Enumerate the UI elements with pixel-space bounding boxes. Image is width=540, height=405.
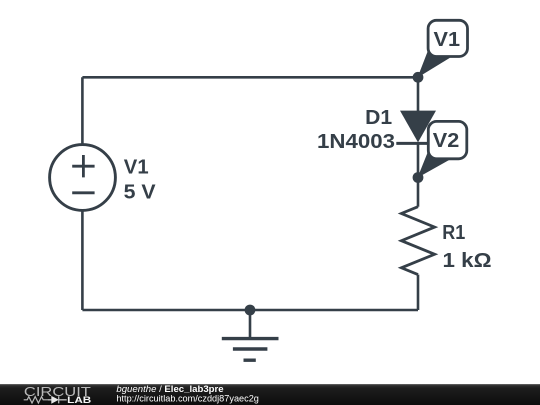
wire bottom horizontal rail bbox=[82, 309, 418, 312]
svg-text:V1: V1 bbox=[434, 28, 461, 51]
flag V2 rounded box bbox=[428, 121, 467, 158]
wire top horizontal from source to node V1 bbox=[82, 76, 418, 79]
svg-text:1N4003: 1N4003 bbox=[317, 130, 395, 153]
svg-text:R1: R1 bbox=[442, 221, 465, 244]
wire diode to resistor with node V2 bbox=[417, 143, 420, 207]
wire left vertical upper (source top to corner) bbox=[81, 77, 84, 144]
voltage source V1 circle bbox=[50, 145, 116, 211]
wire node V1 down to diode bbox=[417, 77, 420, 111]
diode D1 triangle bbox=[400, 111, 436, 143]
svg-text:1 kΩ: 1 kΩ bbox=[443, 249, 492, 272]
diode D1 cathode bar bbox=[396, 142, 438, 145]
svg-text:V2: V2 bbox=[433, 129, 460, 152]
footer logo resistor zigzag bbox=[24, 397, 48, 403]
flag V2 tail wedge bbox=[418, 152, 451, 178]
svg-text:http://circuitlab.com/czddj87y: http://circuitlab.com/czddj87yaec2g bbox=[116, 394, 259, 405]
ground node dot bbox=[245, 305, 256, 316]
resistor R1 zigzag bbox=[401, 207, 434, 275]
node junction dot mid (net V2) bbox=[413, 172, 424, 183]
ground bar 3 bbox=[244, 359, 256, 362]
svg-text:D1: D1 bbox=[365, 106, 392, 129]
svg-text:LAB: LAB bbox=[67, 395, 91, 405]
svg-text:5 V: 5 V bbox=[124, 181, 156, 204]
footer logo diode wire and bar bbox=[48, 396, 67, 403]
ground bar 2 bbox=[233, 347, 268, 350]
node junction dot top (net V1) bbox=[413, 72, 424, 83]
ground bar 1 bbox=[222, 337, 279, 340]
footer logo diode triangle bbox=[51, 396, 59, 404]
wire left vertical lower (source bottom to bottom rail) bbox=[81, 211, 84, 311]
voltage source plus sign bbox=[72, 155, 94, 177]
flag V1 tail wedge bbox=[418, 51, 451, 78]
footer bar bbox=[0, 384, 540, 405]
voltage source minus sign bbox=[72, 191, 94, 194]
svg-text:V1: V1 bbox=[124, 155, 149, 178]
ground stub wire bbox=[249, 310, 252, 339]
flag V1 rounded box bbox=[428, 20, 467, 56]
wire resistor to bottom rail bbox=[417, 275, 420, 310]
